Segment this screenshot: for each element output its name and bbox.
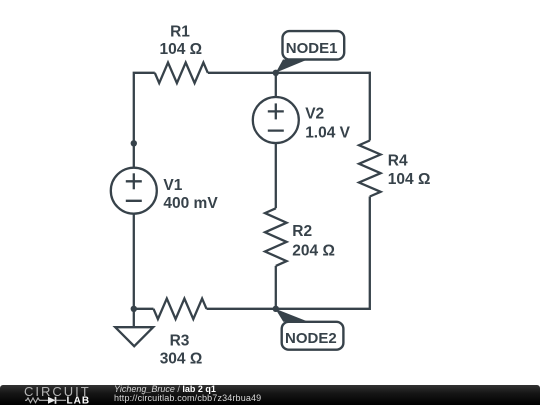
resistor R3 xyxy=(154,299,207,320)
wire R2 bottom to NODE2 junction xyxy=(275,266,277,309)
wire NODE2 junction to bottom-right corner up to R4 xyxy=(276,197,370,309)
junction dot on left wire xyxy=(131,140,137,146)
svg-text:LAB: LAB xyxy=(67,395,91,405)
svg-text:R1: R1 xyxy=(170,23,190,40)
wire ground junction to R3 left terminal xyxy=(134,308,154,310)
svg-text:R2: R2 xyxy=(292,223,312,240)
svg-text:204 Ω: 204 Ω xyxy=(292,242,335,259)
wire top-left corner to R1 left terminal xyxy=(134,73,155,168)
NODE2 label pointer wedge xyxy=(275,309,308,322)
ground junction dot xyxy=(131,306,137,312)
node label NODE1 xyxy=(283,31,345,59)
node label NODE2 xyxy=(282,322,344,350)
NODE1 label pointer wedge xyxy=(276,60,308,73)
svg-text:400 mV: 400 mV xyxy=(163,195,218,212)
footer title text line 1 xyxy=(114,385,261,404)
svg-text:V1: V1 xyxy=(163,177,182,194)
footer bar xyxy=(0,385,540,405)
resistor R4 xyxy=(359,141,381,197)
svg-text:104 Ω: 104 Ω xyxy=(388,171,431,188)
svg-text:304 Ω: 304 Ω xyxy=(160,350,203,367)
node NODE2 junction dot xyxy=(273,306,279,312)
svg-text:104 Ω: 104 Ω xyxy=(159,41,202,58)
CircuitLab logo xyxy=(0,385,100,405)
wire NODE1 junction down to V2 top xyxy=(275,73,277,97)
voltage source V1 xyxy=(111,168,157,214)
svg-text:NODE2: NODE2 xyxy=(285,330,337,347)
svg-text:R3: R3 xyxy=(170,333,190,350)
voltage source V2 xyxy=(253,97,299,143)
wire R1 right terminal to NODE1 junction xyxy=(208,72,276,74)
resistor R1 xyxy=(155,63,208,84)
wire NODE1 junction to top-right corner down to R4 xyxy=(276,73,370,141)
svg-text:V2: V2 xyxy=(305,106,324,123)
svg-text:1.04 V: 1.04 V xyxy=(305,124,350,141)
resistor R2 xyxy=(265,208,287,266)
wire V2 bottom to R2 top xyxy=(275,143,277,209)
svg-text:NODE1: NODE1 xyxy=(286,40,338,57)
wire V1 bottom to ground junction xyxy=(133,214,135,309)
wire R3 right terminal to NODE2 junction xyxy=(207,308,276,310)
svg-text:R4: R4 xyxy=(388,153,408,170)
node NODE1 junction dot xyxy=(273,70,279,76)
ground xyxy=(133,309,135,327)
